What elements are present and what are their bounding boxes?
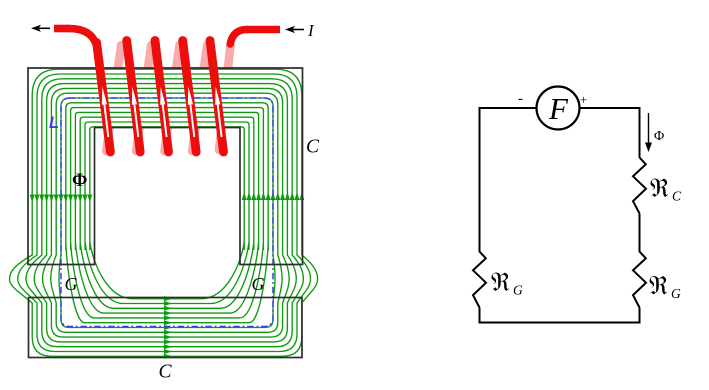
resistor (reluctance) R_C of core, right branch <box>633 158 646 214</box>
resistor (reluctance) R_G right air gap, right branch <box>633 252 646 308</box>
label reluctance R_C <box>651 179 683 204</box>
label reluctance R_G (right) <box>650 276 682 301</box>
svg-text:C: C <box>159 362 173 383</box>
label reluctance R_G (left) <box>492 273 524 298</box>
svg-text:F: F <box>548 91 569 126</box>
svg-text:L: L <box>49 114 59 132</box>
svg-text:C: C <box>672 189 682 204</box>
coil back strands (hidden side of winding) <box>106 45 230 151</box>
svg-text:G: G <box>671 286 681 301</box>
svg-text:G: G <box>252 274 265 294</box>
flux direction arrowheads on bottom bar (right) <box>164 296 172 359</box>
svg-text:+: + <box>580 92 587 107</box>
flux arrow PHI in circuit <box>645 113 664 152</box>
flux direction arrowheads on right leg (up) <box>242 192 305 200</box>
flux direction arrowheads on left leg (down) <box>30 195 93 203</box>
core body (opaque, hides back strands) <box>28 68 303 128</box>
coil right lead (current input wire) <box>230 30 280 45</box>
svg-text:Φ: Φ <box>72 171 87 191</box>
mean magnetic path L (blue dash-dot loop) <box>61 98 273 327</box>
svg-text:Φ: Φ <box>654 129 664 144</box>
wire: circuit loop (top, left, bottom, right segments) <box>480 108 640 323</box>
current arrow at right lead with label I <box>285 21 315 40</box>
magnetic core C (upper inverted-U core outline) <box>28 68 303 265</box>
current arrow at left lead <box>31 25 50 32</box>
svg-text:C: C <box>306 137 320 158</box>
flux lines PHI (green flux loops around core with fringing at gaps) <box>10 69 318 356</box>
mmf source F (circle) <box>537 87 580 130</box>
svg-text:G: G <box>513 283 523 298</box>
svg-text:-: - <box>518 91 523 107</box>
coil winding front strands (red) with left lead <box>54 29 224 153</box>
resistor (reluctance) R_G left air gap, left branch <box>473 252 486 308</box>
current direction arrows on winding (white) <box>102 87 222 138</box>
magnetic core C (bottom bar outline) <box>29 298 303 358</box>
svg-text:G: G <box>65 274 78 294</box>
